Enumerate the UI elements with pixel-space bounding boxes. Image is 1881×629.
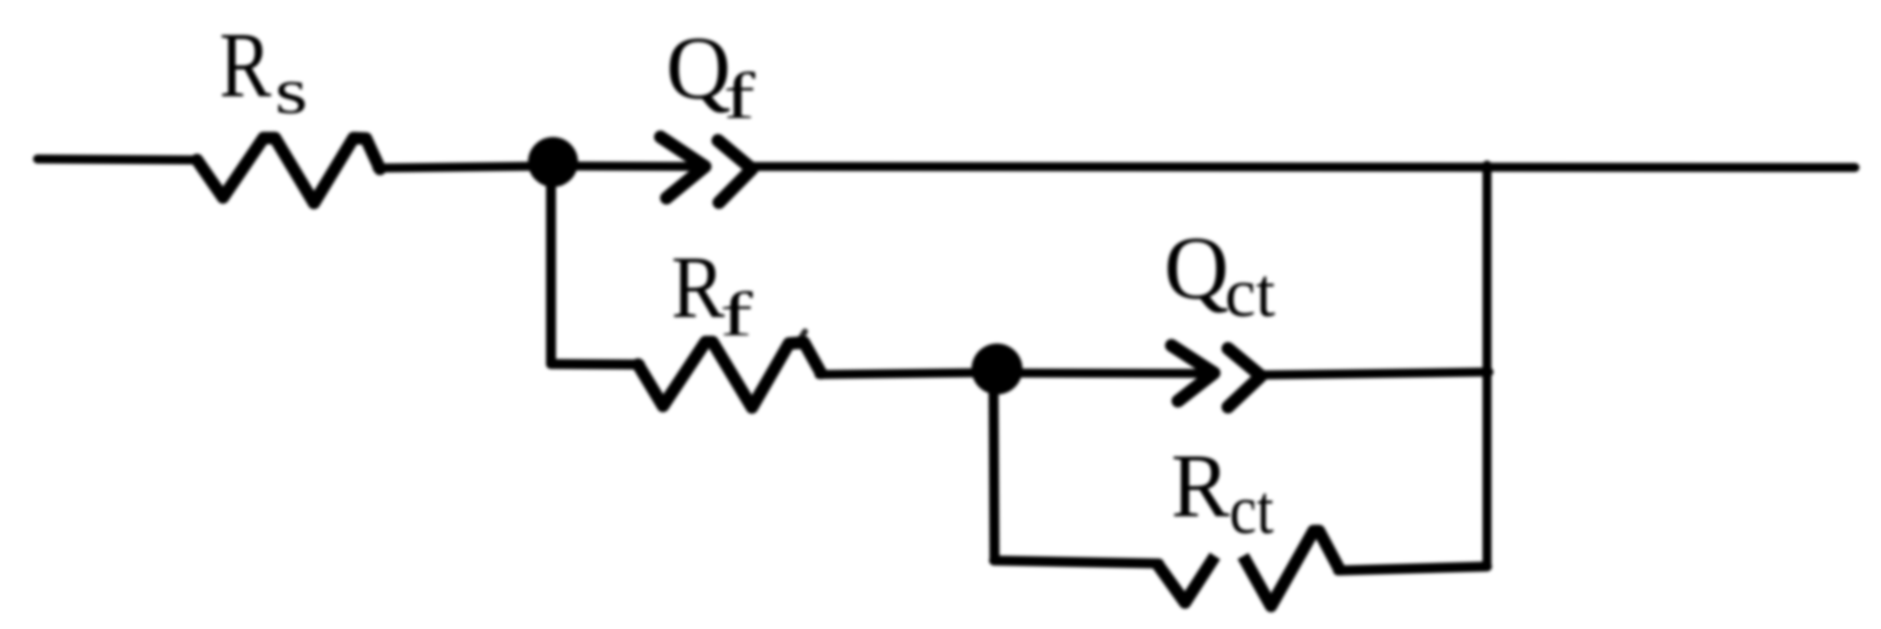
resistor Rf xyxy=(638,342,821,408)
label Rct xyxy=(1171,436,1274,549)
wire (Rs to node A) xyxy=(377,166,556,168)
wire (right vertical rail) xyxy=(1483,165,1492,567)
resistor Rf peak tick xyxy=(801,332,805,339)
resistor Rs xyxy=(197,138,380,203)
wire (Rct to right vertical rail) xyxy=(1338,567,1487,571)
wire (Rf to node B) xyxy=(819,373,998,375)
svg-text:Q: Q xyxy=(1164,219,1229,318)
svg-text:R: R xyxy=(219,13,272,117)
svg-text:Q: Q xyxy=(666,19,731,118)
svg-text:f: f xyxy=(723,59,756,132)
label Rs xyxy=(219,13,308,128)
label Rf xyxy=(671,239,753,348)
node A (junction dot) xyxy=(528,137,578,187)
wire (top rail: Qf to right terminal) xyxy=(750,167,1855,168)
node B (junction dot) xyxy=(972,344,1023,395)
resistor Rct (first V, tip clipped) xyxy=(1157,556,1215,603)
wire (vertical drop from node B) xyxy=(994,385,995,561)
svg-text:R: R xyxy=(1171,436,1230,536)
svg-text:f: f xyxy=(720,279,753,349)
wire (node B to CPE Qct) xyxy=(997,369,1212,379)
svg-text:ct: ct xyxy=(1229,471,1273,549)
label Qct xyxy=(1164,219,1276,332)
wire (to Rct) xyxy=(994,561,1159,564)
resistor Rct (second V and peak) xyxy=(1243,531,1340,606)
CPE Qct (double chevron) xyxy=(1172,346,1262,408)
wire (node A to CPE Qf) xyxy=(553,162,703,172)
svg-text:R: R xyxy=(671,239,725,337)
svg-text:s: s xyxy=(275,55,308,127)
CPE Qf (double chevron) xyxy=(661,137,753,203)
wire (left terminal lead) xyxy=(38,159,200,160)
label Qf xyxy=(666,19,756,132)
svg-text:ct: ct xyxy=(1225,255,1276,332)
wire (vertical drop from node A) xyxy=(546,166,556,364)
wire (to Rf) xyxy=(551,359,640,370)
wire (Qct to right vertical rail) xyxy=(1259,372,1489,375)
